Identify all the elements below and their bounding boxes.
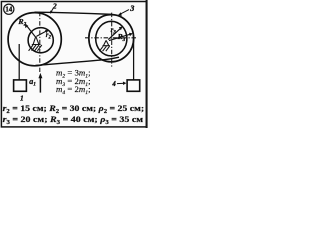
pulley 2 vertical axis centerline <box>39 12 41 72</box>
mass 1 box <box>14 80 27 91</box>
r2 radius arrow <box>37 30 49 36</box>
problem number 14 badge <box>4 4 14 14</box>
pulley 3 pivot support <box>99 40 110 51</box>
rope to mass 1 <box>18 44 20 80</box>
r3 radius arrow <box>108 27 122 40</box>
pulley 2 pivot support <box>29 36 42 51</box>
label 3 with leader arrow <box>118 4 134 16</box>
pulley 3 horizontal centerline <box>85 37 138 39</box>
pulley 2 outer rim R2 <box>8 13 61 66</box>
pulley 2 inner rim r2 <box>28 28 53 53</box>
belt upper side <box>35 12 113 14</box>
R2 radius arrow <box>24 24 35 37</box>
pulley 3 outer rim <box>89 15 134 62</box>
mass 4 box <box>127 80 140 91</box>
rope to mass 4 <box>133 38 135 81</box>
svg-text:14: 14 <box>5 6 13 14</box>
pulley 3 vertical centerline <box>111 13 113 68</box>
label 4 with leader arrow <box>111 81 126 88</box>
svg-text:4: 4 <box>111 81 116 88</box>
R3 radius arrow <box>109 33 133 41</box>
frame <box>1 2 146 127</box>
a1 acceleration arrow <box>38 73 42 93</box>
belt lower side <box>36 57 120 65</box>
svg-text:1: 1 <box>20 93 24 102</box>
svg-text:3: 3 <box>129 4 134 13</box>
pulley 3 inner rim <box>96 21 127 56</box>
label 2 with leader arrow <box>50 2 57 14</box>
